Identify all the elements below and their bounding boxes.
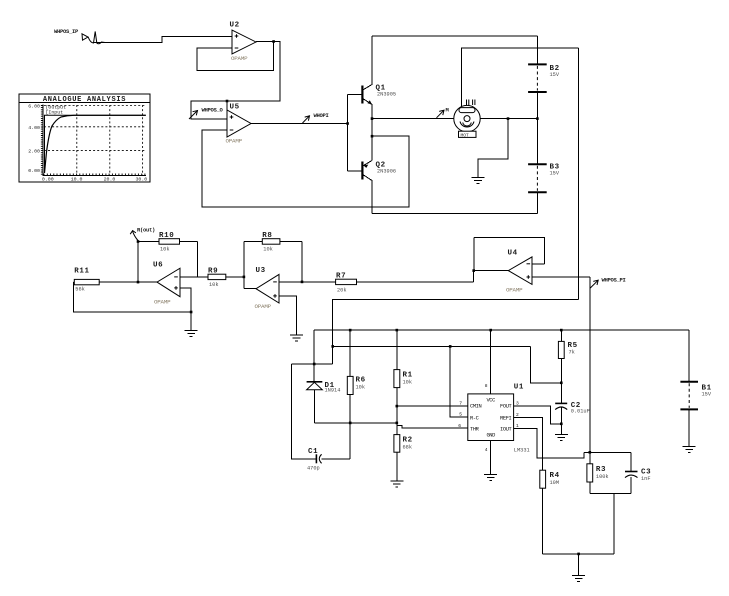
svg-text:GND: GND: [486, 433, 495, 439]
svg-text:15V: 15V: [702, 392, 712, 398]
svg-text:MOT: MOT: [461, 133, 470, 139]
svg-text:WHPOS_O: WHPOS_O: [202, 106, 224, 113]
svg-text:[Input: [Input: [46, 110, 64, 116]
svg-text:R3: R3: [596, 466, 606, 474]
svg-text:4: 4: [485, 447, 488, 453]
svg-text:7: 7: [459, 401, 462, 407]
svg-text:U3: U3: [256, 267, 266, 275]
svg-text:R1: R1: [403, 372, 413, 380]
svg-text:2: 2: [516, 412, 519, 418]
svg-text:FOUT: FOUT: [500, 404, 513, 410]
svg-text:0.00: 0.00: [28, 168, 40, 174]
svg-text:0.01uF: 0.01uF: [571, 409, 590, 415]
svg-text:WHPOS_IP: WHPOS_IP: [54, 28, 79, 35]
svg-text:68k: 68k: [403, 445, 413, 451]
svg-text:OPAMP: OPAMP: [231, 55, 248, 62]
svg-text:THR: THR: [470, 427, 480, 433]
svg-text:REFI: REFI: [500, 416, 512, 422]
svg-text:1: 1: [516, 423, 519, 429]
svg-text:7k: 7k: [569, 350, 575, 356]
svg-text:30.0: 30.0: [136, 176, 148, 182]
svg-text:R4: R4: [550, 472, 560, 480]
svg-text:[Output: [Output: [46, 104, 67, 110]
svg-text:10k: 10k: [403, 380, 413, 386]
svg-text:2N3906: 2N3906: [377, 168, 396, 174]
svg-text:R2: R2: [403, 437, 413, 445]
svg-text:R10: R10: [159, 232, 174, 240]
svg-text:1N914: 1N914: [325, 388, 341, 394]
svg-text:15V: 15V: [550, 72, 560, 78]
svg-text:IOUT: IOUT: [500, 427, 513, 433]
svg-text:8: 8: [485, 383, 488, 389]
svg-text:WHOPI: WHOPI: [314, 112, 329, 119]
svg-text:56k: 56k: [75, 287, 85, 293]
svg-text:U2: U2: [230, 22, 240, 30]
svg-text:6: 6: [458, 423, 461, 429]
svg-text:1nF: 1nF: [641, 476, 651, 482]
svg-text:R6: R6: [356, 377, 366, 385]
svg-text:U6: U6: [153, 262, 163, 270]
svg-text:WHPOS_PI: WHPOS_PI: [602, 276, 626, 283]
svg-text:OPAMP: OPAMP: [506, 287, 523, 294]
svg-text:U1: U1: [514, 384, 524, 392]
svg-text:OPAMP: OPAMP: [154, 299, 171, 306]
svg-text:100k: 100k: [596, 474, 609, 480]
svg-text:4.00: 4.00: [28, 125, 40, 131]
svg-text:10k: 10k: [209, 282, 219, 288]
svg-text:6.00: 6.00: [28, 104, 40, 110]
svg-text:10k: 10k: [160, 247, 170, 253]
svg-text:15V: 15V: [550, 171, 560, 177]
svg-text:OPAMP: OPAMP: [226, 138, 243, 145]
svg-text:20.0: 20.0: [104, 176, 116, 182]
svg-text:5: 5: [459, 411, 462, 417]
svg-text:20k: 20k: [337, 288, 347, 294]
svg-text:R8: R8: [262, 232, 272, 240]
svg-text:U4: U4: [508, 250, 518, 258]
svg-text:10M: 10M: [550, 480, 560, 486]
svg-text:U5: U5: [230, 104, 240, 112]
svg-text:10.0: 10.0: [71, 176, 83, 182]
svg-text:ANALOGUE ANALYSIS: ANALOGUE ANALYSIS: [43, 96, 126, 104]
svg-text:2N3905: 2N3905: [377, 91, 396, 97]
svg-text:R11: R11: [74, 268, 89, 276]
svg-text:0.00: 0.00: [42, 176, 54, 182]
svg-text:R7: R7: [336, 273, 346, 281]
svg-text:10k: 10k: [263, 247, 273, 253]
svg-text:2.00: 2.00: [28, 149, 40, 155]
svg-text:R9: R9: [208, 268, 218, 276]
svg-text:3: 3: [516, 401, 519, 407]
svg-text:R(out): R(out): [137, 227, 155, 234]
svg-text:10k: 10k: [356, 385, 366, 391]
svg-text:470p: 470p: [307, 466, 320, 472]
svg-text:OPAMP: OPAMP: [255, 303, 272, 310]
svg-text:R-C: R-C: [470, 416, 479, 422]
svg-text:VCC: VCC: [486, 397, 495, 403]
svg-text:LM331: LM331: [514, 448, 530, 454]
svg-text:C1: C1: [308, 448, 318, 456]
svg-text:CMIN: CMIN: [470, 404, 482, 410]
